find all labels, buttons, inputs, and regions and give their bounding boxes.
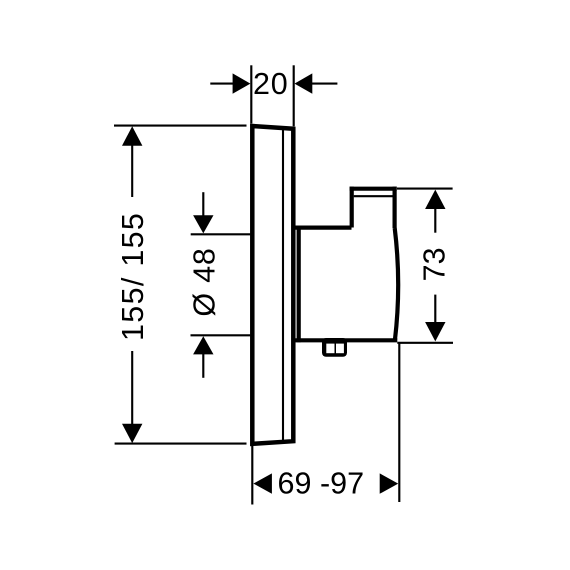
- svg-text:Ø 48: Ø 48: [188, 247, 222, 316]
- plate inner edge line: [282, 130, 284, 441]
- dimension 155/155 (left, overall height): [114, 126, 247, 444]
- arrow down (top of Ø48): [193, 215, 213, 233]
- svg-text:20: 20: [253, 67, 289, 101]
- extension line top: [397, 188, 453, 190]
- extension line left: [250, 65, 252, 123]
- arrow tail down: [202, 353, 204, 378]
- arrow left of 69-97: [253, 473, 272, 493]
- arrow right of 69-97: [380, 473, 399, 493]
- arrow up (bottom of Ø48): [193, 336, 213, 354]
- extension line bottom: [191, 334, 251, 336]
- valve body outline: [294, 226, 399, 343]
- extension line right: [293, 65, 295, 126]
- extension line bottom: [397, 342, 453, 344]
- dimension Ø48 (plate centre circle): [191, 192, 251, 378]
- extension line top: [191, 233, 251, 235]
- svg-text:73: 73: [417, 247, 451, 281]
- arrow bottom of 73: [425, 322, 445, 341]
- extension line top: [114, 125, 247, 127]
- leader left: [210, 83, 234, 85]
- arrow left of 20: [233, 73, 251, 93]
- arrow top of 73: [425, 190, 445, 209]
- escutcheon plate outline (side view): [252, 126, 293, 444]
- arrow top of 155: [122, 126, 142, 145]
- svg-text:155/ 155: 155/ 155: [116, 212, 150, 341]
- svg-text:69 -97: 69 -97: [278, 467, 364, 501]
- dimension 20 (plate thickness, top): [210, 65, 337, 126]
- arrow bottom of 155: [122, 424, 142, 443]
- stem cap inner line: [354, 195, 393, 197]
- dimension 69-97 (installation depth, bottom): [252, 344, 399, 505]
- bottom connector lug: [322, 338, 347, 357]
- dimension line segments: [131, 144, 133, 197]
- dimension 73 (body depth, right): [397, 189, 453, 343]
- leader right: [311, 83, 337, 85]
- cartridge stem on top of body: [350, 187, 397, 228]
- extension line left: [251, 446, 253, 505]
- arrow tail up: [202, 192, 204, 217]
- dimension line segments: [434, 208, 436, 233]
- extension line bottom: [115, 443, 247, 445]
- arrow right of 20: [295, 73, 313, 93]
- extension line right: [398, 344, 400, 503]
